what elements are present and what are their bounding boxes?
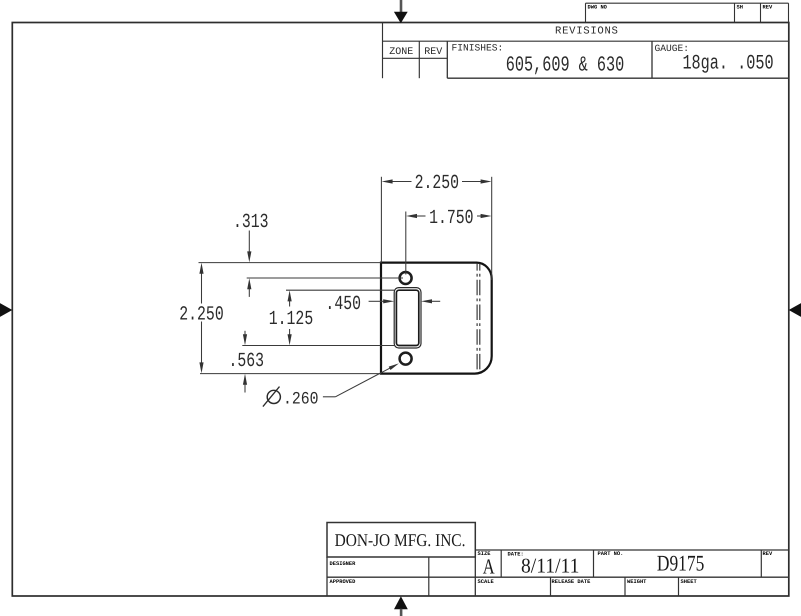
svg-text:FINISHES:: FINISHES: [452, 43, 504, 54]
svg-text:2.250: 2.250 [415, 173, 459, 195]
svg-text:.260: .260 [283, 390, 319, 409]
svg-text:RELEASE DATE: RELEASE DATE [552, 579, 592, 585]
svg-text:1.750: 1.750 [429, 208, 473, 230]
svg-text:APPROVED: APPROVED [330, 579, 357, 585]
svg-text:A: A [483, 554, 495, 579]
svg-text:.313: .313 [233, 212, 269, 234]
svg-text:REVISIONS: REVISIONS [555, 26, 619, 38]
svg-text:18ga. .050: 18ga. .050 [682, 51, 773, 75]
svg-text:.563: .563 [229, 351, 265, 373]
svg-text:605,609 & 630: 605,609 & 630 [506, 52, 624, 77]
svg-text:8/11/11: 8/11/11 [521, 555, 579, 577]
svg-text:REV: REV [424, 47, 442, 58]
svg-text:.450: .450 [325, 294, 361, 316]
svg-text:SHEET: SHEET [681, 579, 698, 585]
svg-text:REV: REV [763, 551, 773, 557]
svg-text:WEIGHT: WEIGHT [627, 579, 647, 585]
svg-text:SCALE: SCALE [478, 579, 495, 585]
svg-text:DWG NO: DWG NO [588, 4, 608, 10]
svg-text:2.250: 2.250 [179, 305, 223, 327]
svg-text:DESIGNER: DESIGNER [330, 561, 357, 567]
svg-text:ZONE: ZONE [389, 47, 413, 58]
svg-text:REV: REV [763, 4, 773, 10]
svg-text:1.125: 1.125 [269, 309, 313, 331]
svg-text:PART NO.: PART NO. [598, 551, 624, 557]
svg-text:D9175: D9175 [657, 550, 705, 576]
svg-text:SH: SH [737, 4, 743, 10]
svg-text:DON-JO MFG. INC.: DON-JO MFG. INC. [335, 531, 466, 551]
